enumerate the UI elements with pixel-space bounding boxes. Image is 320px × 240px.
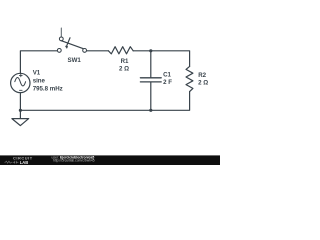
- svg-text:V1: V1: [33, 70, 41, 77]
- label R1 value: [119, 58, 129, 72]
- voltage source V1: [11, 73, 30, 92]
- node at V1 ground junction: [19, 109, 22, 112]
- wire top-left from V1 to SW1 left terminal: [20, 51, 57, 74]
- svg-text:795.8 mHz: 795.8 mHz: [33, 86, 63, 93]
- svg-text:SW1: SW1: [68, 57, 82, 64]
- node at C1 top: [149, 49, 152, 52]
- wire C1 branch bottom: [150, 83, 152, 111]
- wire R1 to top-right corner: [133, 51, 189, 67]
- resistor R1: [108, 47, 133, 54]
- resistor R2: [186, 66, 193, 91]
- logo squiggle wire: [5, 161, 19, 164]
- node at C1 bottom: [149, 109, 152, 112]
- svg-text:2 Ω: 2 Ω: [198, 79, 208, 86]
- switch SW1: [57, 28, 86, 52]
- svg-text:R2: R2: [198, 72, 206, 79]
- svg-text:sine: sine: [33, 78, 46, 85]
- wire V1 bottom to ground node: [19, 93, 21, 119]
- svg-text:R1: R1: [121, 58, 129, 65]
- wire R2 to bottom rail: [20, 92, 189, 111]
- CircuitLab watermark bar: [0, 155, 220, 165]
- svg-text:2 Ω: 2 Ω: [119, 65, 129, 72]
- label V1 value: [33, 70, 63, 93]
- svg-text:http://circuitlab.com/c/bwh45: http://circuitlab.com/c/bwh45: [53, 159, 95, 163]
- wire C1 branch top: [150, 51, 152, 77]
- capacitor C1: [140, 78, 161, 82]
- svg-text:LAB: LAB: [20, 160, 28, 165]
- svg-text:2 F: 2 F: [163, 79, 172, 86]
- svg-text:C1: C1: [163, 71, 171, 78]
- wire SW1 right terminal to R1: [87, 50, 109, 52]
- ground: [12, 119, 29, 126]
- label C1 value: [163, 71, 172, 86]
- label R2 value: [198, 72, 208, 86]
